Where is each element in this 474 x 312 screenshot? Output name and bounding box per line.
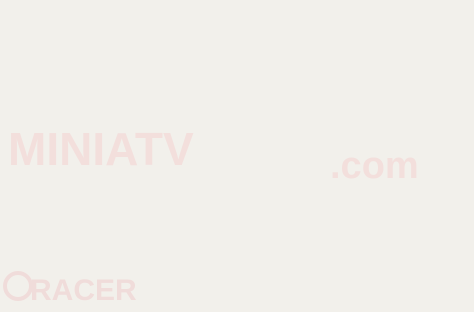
svg-text:RACER: RACER [30,274,137,307]
svg-text:.com: .com [330,145,419,187]
svg-text:MINIATV: MINIATV [8,123,194,175]
